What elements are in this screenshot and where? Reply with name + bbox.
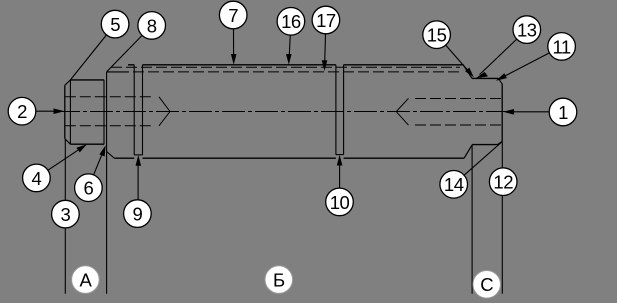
svg-text:6: 6 xyxy=(84,178,94,199)
svg-text:7: 7 xyxy=(228,5,238,26)
svg-text:4: 4 xyxy=(32,168,42,189)
svg-text:16: 16 xyxy=(281,11,301,32)
svg-text:1: 1 xyxy=(558,102,568,123)
svg-text:А: А xyxy=(79,270,92,291)
svg-text:12: 12 xyxy=(493,172,513,193)
svg-text:3: 3 xyxy=(61,204,71,225)
svg-text:5: 5 xyxy=(110,14,120,35)
svg-text:11: 11 xyxy=(552,36,570,57)
svg-text:14: 14 xyxy=(444,174,464,195)
svg-text:8: 8 xyxy=(147,15,157,36)
svg-text:10: 10 xyxy=(330,192,350,213)
svg-text:15: 15 xyxy=(427,25,447,46)
svg-text:С: С xyxy=(480,274,493,295)
svg-text:Б: Б xyxy=(273,270,285,291)
svg-text:17: 17 xyxy=(316,10,336,31)
svg-text:13: 13 xyxy=(517,20,537,41)
svg-text:9: 9 xyxy=(133,204,143,225)
svg-text:2: 2 xyxy=(17,101,27,122)
